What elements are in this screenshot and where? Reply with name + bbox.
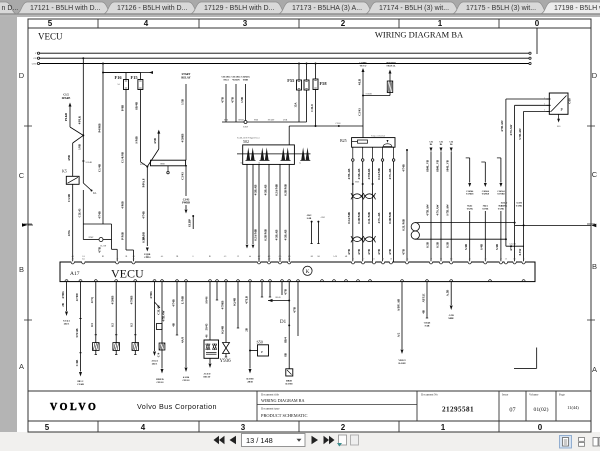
svg-text:B4: B4: [79, 279, 81, 281]
wire below F15: [139, 90, 141, 162]
svg-text:22: 22: [321, 279, 323, 281]
svg-text:PRODUCT SCHEMATIC: PRODUCT SCHEMATIC: [261, 413, 307, 418]
svg-text:2: 2: [341, 423, 346, 432]
svg-text:TANK: TANK: [467, 207, 473, 210]
svg-text:Document No: Document No: [421, 393, 438, 397]
svg-text:VOLVO: VOLVO: [50, 402, 98, 413]
svg-text:C3L8: C3L8: [310, 104, 314, 112]
svg-text:17175 - B5LH (3) wit...: 17175 - B5LH (3) wit...: [466, 5, 536, 12]
svg-text:0.5B: 0.5B: [446, 242, 450, 248]
svg-text:4/7B6: 4/7B6: [149, 291, 153, 299]
wire relay feed: [73, 135, 84, 143]
svg-text:4/3B.AB: 4/3B.AB: [253, 185, 257, 196]
svg-text:4A/8: 4A/8: [180, 337, 184, 344]
svg-text:4/74B: 4/74B: [171, 299, 175, 306]
svg-text:A3: A3: [224, 255, 226, 258]
svg-text:4/76.AW: 4/76.AW: [509, 125, 513, 136]
svg-text:B4: B4: [82, 259, 84, 261]
wire pin x289: [288, 282, 290, 369]
switch KL: [83, 183, 91, 191]
wire to top border: [536, 28, 538, 54]
svg-text:C7: C7: [369, 279, 371, 281]
svg-text:4/7B: 4/7B: [357, 249, 361, 255]
svg-text:TANK: TANK: [516, 204, 522, 207]
svg-text:SB/4B: SB/4B: [135, 102, 139, 110]
signal rail through 502: [237, 153, 311, 155]
power bus GND: [37, 62, 39, 64]
svg-text:B6: B6: [430, 144, 432, 146]
svg-text:4/76.AW: 4/76.AW: [435, 205, 439, 216]
svg-text:C3: C3: [269, 279, 271, 281]
svg-text:C36564: C36564: [497, 191, 505, 193]
svg-text:B25: B25: [340, 138, 347, 143]
svg-text:CHAS: CHAS: [157, 381, 165, 384]
svg-text:22: 22: [500, 259, 502, 261]
off-page wire: [524, 224, 591, 226]
node S148: [82, 134, 84, 136]
svg-text:A2: A2: [71, 258, 73, 261]
wire pin x402: [401, 282, 403, 349]
svg-text:C1: C1: [522, 279, 524, 281]
svg-text:4/7B.AB: 4/7B.AB: [347, 169, 351, 180]
svg-text:4/MB: 4/MB: [120, 201, 124, 208]
svg-text:2B: 2B: [61, 303, 65, 307]
svg-text:C3/4B: C3/4B: [77, 383, 84, 386]
svg-text:FRB: FRB: [224, 120, 229, 122]
svg-text:15: 15: [357, 279, 359, 281]
view mode single page selected: [560, 436, 572, 449]
svg-text:TANK8: TANK8: [497, 193, 505, 196]
svg-text:4/5B: 4/5B: [153, 138, 157, 144]
svg-text:WIRING DIAGRAM BA: WIRING DIAGRAM BA: [261, 398, 305, 403]
svg-text:C: C: [592, 170, 598, 179]
svg-text:AT/LE: AT/LE: [421, 294, 425, 303]
wire B25 pin x352.8: [352, 161, 354, 262]
tab 17126: [104, 2, 199, 14]
wire pin x427: [426, 282, 428, 318]
shield symbol outside: [301, 147, 305, 160]
svg-text:A.26: A.26: [333, 255, 337, 258]
next page button: [312, 436, 319, 444]
wire pin x217: [216, 282, 218, 300]
svg-text:F58: F58: [320, 81, 328, 86]
svg-text:4/7B: 4/7B: [377, 249, 381, 255]
svg-text:4/3B.AB: 4/3B.AB: [274, 230, 278, 241]
svg-text:0.5W: 0.5W: [518, 249, 522, 256]
svg-text:2B/A: 2B/A: [64, 323, 70, 326]
svg-text:C3L43: C3L43: [78, 208, 82, 217]
svg-text:0.5L/MB: 0.5L/MB: [367, 212, 371, 223]
wire pin x238: [237, 282, 239, 328]
wire pin x154: [154, 282, 156, 351]
svg-text:2B: 2B: [244, 328, 248, 332]
svg-text:A: A: [592, 365, 597, 374]
svg-text:31: 31: [373, 259, 375, 261]
svg-text:4/3B.AB: 4/3B.AB: [263, 185, 267, 196]
svg-text:F15: F15: [131, 75, 139, 80]
svg-text:4.3: 4.3: [268, 256, 271, 258]
svg-text:17173 - B5LHA (3) A...: 17173 - B5LHA (3) A...: [292, 5, 362, 12]
svg-text:4/PLK: 4/PLK: [78, 115, 82, 124]
svg-text:GB: GB: [33, 58, 37, 60]
tab bar: [0, 0, 600, 14]
row tick: [24, 125, 32, 127]
svg-text:4/5MB: 4/5MB: [180, 134, 184, 143]
wire F16 jog: [126, 249, 134, 251]
svg-text:6: 6: [193, 256, 194, 258]
svg-text:PWRB: PWRB: [182, 202, 190, 205]
wires 502 to VECU: [258, 164, 260, 262]
svg-text:28: 28: [390, 259, 392, 261]
lamp CL/D4: [99, 238, 103, 242]
svg-text:3: 3: [544, 110, 545, 112]
svg-text:A7: A7: [209, 278, 211, 281]
wire B25 pin x382.5: [382, 161, 384, 262]
wire bus drop x103: [102, 63, 104, 65]
svg-text:F55: F55: [287, 78, 295, 83]
svg-text:2: 2: [544, 104, 545, 106]
svg-text:S/4B: S/4B: [495, 244, 499, 250]
svg-text:S/4B: S/4B: [464, 244, 468, 250]
svg-text:C3/43: C3/43: [357, 108, 361, 116]
svg-text:A4: A4: [406, 258, 408, 261]
svg-text:36: 36: [333, 279, 335, 281]
svg-text:Temp_coolant/air: Temp_coolant/air: [371, 135, 385, 137]
svg-text:WARN: WARN: [232, 79, 240, 82]
svg-text:TANK: TANK: [498, 207, 504, 210]
power bus GB: [37, 57, 39, 59]
wire below F16: [125, 90, 127, 251]
svg-text:11(44): 11(44): [567, 405, 579, 410]
svg-text:A2: A2: [65, 278, 67, 281]
svg-text:THD: THD: [243, 79, 248, 82]
svg-text:A8: A8: [132, 255, 134, 258]
wire diagonal to S148: [70, 127, 83, 135]
solenoid Y936: [209, 282, 211, 340]
wire pin x298: [297, 282, 299, 336]
svg-text:C/4: C/4: [156, 352, 160, 357]
wire to lamp node: [82, 190, 84, 240]
svg-text:12: 12: [185, 279, 187, 281]
wire pin x177: [176, 282, 178, 335]
svg-text:TANK: TANK: [501, 204, 507, 207]
svg-text:C36: C36: [429, 142, 433, 144]
wire pin x226: [225, 282, 227, 343]
terminal strip: [151, 160, 186, 166]
svg-text:31: 31: [216, 279, 218, 281]
svg-text:4/7B: 4/7B: [367, 249, 371, 255]
snapshot icons: [339, 435, 347, 445]
wire pin x262: [261, 282, 263, 297]
svg-text:S76/4B: S76/4B: [75, 328, 79, 337]
svg-text:C1: C1: [134, 279, 136, 281]
svg-text:0.5B: 0.5B: [142, 237, 146, 243]
svg-text:FRB: FRB: [254, 120, 259, 122]
svg-text:4/74B: 4/74B: [97, 211, 101, 218]
power bus V: [37, 52, 39, 54]
tab 17198: [541, 2, 600, 14]
lamp box: [83, 223, 111, 225]
svg-text:0.5A/MB: 0.5A/MB: [347, 212, 351, 224]
svg-text:D: D: [592, 71, 598, 80]
svg-text:S50: S50: [257, 340, 263, 345]
svg-text:C3: C3: [440, 259, 442, 261]
svg-text:S/MB: S/MB: [135, 136, 139, 143]
twisted pair upper: [351, 193, 363, 199]
svg-text:41: 41: [288, 279, 290, 281]
svg-text:4/7B: 4/7B: [97, 247, 101, 253]
svg-text:C3L4B: C3L4B: [156, 305, 160, 314]
svg-text:C2: C2: [237, 256, 239, 258]
wire tank sender x469.7: [466, 157, 470, 159]
svg-text:4/7B.AW: 4/7B.AW: [425, 204, 429, 215]
svg-text:2: 2: [341, 19, 346, 28]
fold mark: [536, 348, 538, 369]
svg-text:C366: C366: [336, 123, 342, 125]
svg-text:CHAS: CHAS: [183, 379, 191, 382]
svg-text:17: 17: [116, 259, 118, 261]
B25 dome: [383, 144, 392, 147]
svg-text:0.5B: 0.5B: [425, 242, 429, 248]
sensor drain: [558, 114, 560, 119]
wire B25 pin x393.6: [393, 161, 395, 262]
svg-text:12: 12: [352, 259, 354, 261]
resistor speedo: [387, 81, 393, 93]
svg-text:23: 23: [133, 259, 135, 261]
fuse feed rail: [103, 72, 140, 74]
svg-text:3: 3: [241, 423, 246, 432]
wire pin x66: [66, 282, 68, 311]
svg-text:4/7B: 4/7B: [284, 289, 288, 295]
svg-text:C: C: [19, 171, 25, 180]
svg-text:0.5B/MB: 0.5B/MB: [263, 229, 267, 240]
connector DASH: [286, 369, 293, 376]
svg-text:HEAT: HEAT: [204, 376, 211, 379]
svg-text:4/9G: 4/9G: [67, 229, 71, 236]
svg-text:TANK8: TANK8: [482, 193, 490, 196]
svg-text:36: 36: [505, 259, 507, 261]
svg-text:4/7B: 4/7B: [292, 307, 296, 313]
VECU bottom pins: [65, 280, 68, 282]
svg-text:0.5B/MB: 0.5B/MB: [357, 212, 361, 223]
node S369: [244, 121, 247, 124]
svg-text:B3: B3: [513, 259, 515, 261]
node S164: [146, 166, 148, 168]
wire tank sender x500.9: [497, 157, 501, 159]
svg-text:5: 5: [45, 423, 50, 432]
svg-text:4B: 4B: [421, 310, 425, 314]
top ruler band: [28, 27, 591, 29]
svg-text:4/7MB: 4/7MB: [130, 296, 134, 305]
svg-text:L/MB: L/MB: [180, 296, 184, 304]
page field: [242, 434, 306, 447]
svg-text:CL/DI: CL/DI: [100, 245, 106, 248]
svg-text:A2: A2: [401, 278, 403, 281]
controller A17 VECU box: [60, 262, 535, 282]
svg-text:Document title: Document title: [261, 393, 280, 397]
svg-text:17198 - B5LH with: 17198 - B5LH with: [554, 5, 600, 12]
svg-text:P8: P8: [146, 256, 148, 258]
svg-text:0.5A/MB: 0.5A/MB: [377, 168, 381, 180]
svg-text:17121 - B5LH with D...: 17121 - B5LH with D...: [30, 5, 100, 12]
svg-text:LNB: LNB: [283, 120, 288, 122]
svg-text:1: 1: [544, 97, 545, 99]
svg-text:0.5L/MB: 0.5L/MB: [401, 219, 405, 230]
rail C366: [289, 125, 363, 127]
svg-text:P: P: [261, 350, 263, 354]
svg-text:A5: A5: [484, 258, 486, 261]
shield symbols: [246, 147, 250, 160]
signal rail: [222, 121, 307, 123]
svg-text:19: 19: [430, 259, 432, 261]
svg-text:17129 - B5LH with D...: 17129 - B5LH with D...: [204, 5, 274, 12]
svg-text:GND: GND: [32, 64, 37, 66]
svg-text:SPDB: SPDB: [238, 120, 244, 122]
svg-text:4/7LB: 4/7LB: [244, 296, 248, 304]
svg-text:4.2: 4.2: [258, 256, 261, 258]
svg-text:C/4B: C/4B: [75, 360, 79, 367]
svg-text:C36: C36: [449, 142, 453, 144]
svg-text:S/7B.AW: S/7B.AW: [446, 204, 450, 216]
tab 17175: [453, 2, 548, 14]
svg-text:17174 - B5LH (3) wit...: 17174 - B5LH (3) wit...: [379, 5, 449, 12]
twisted pair vertical: [411, 223, 419, 231]
svg-text:44: 44: [249, 256, 251, 258]
svg-text:B6: B6: [440, 144, 442, 146]
svg-text:5: 5: [48, 19, 53, 28]
stub AB2: [311, 221, 313, 223]
svg-text:P/PA.8: P/PA.8: [142, 178, 146, 187]
wire x83 lower: [82, 135, 84, 183]
svg-text:0: 0: [538, 423, 543, 432]
svg-text:A: A: [19, 362, 24, 371]
svg-text:4/9B: 4/9B: [67, 155, 71, 161]
wire arrow x158: [157, 130, 160, 134]
svg-text:21295581: 21295581: [442, 406, 474, 414]
svg-text:19: 19: [261, 279, 263, 281]
stub pins 502: [246, 164, 248, 244]
svg-text:Y936: Y936: [220, 359, 232, 364]
svg-text:RELAY: RELAY: [181, 76, 190, 79]
twisted pair lower: [351, 236, 363, 242]
wire pin x135.3: [134, 282, 136, 343]
svg-text:B8: B8: [382, 259, 384, 261]
svg-text:S84L.VB: S84L.VB: [446, 160, 450, 172]
svg-text:1/5B: 1/5B: [180, 99, 184, 105]
svg-text:B1: B1: [209, 256, 211, 258]
fuse F56: [304, 80, 309, 90]
title block top line: [28, 390, 591, 392]
sensor B25 box: [352, 138, 395, 148]
off-page entry arrow left: [22, 223, 28, 227]
svg-text:2B/A: 2B/A: [152, 362, 158, 365]
ruler divider: [97, 19, 99, 28]
svg-text:C36564: C36564: [466, 191, 474, 193]
svg-text:4/7DU: 4/7DU: [75, 292, 79, 301]
svg-text:4/LB: 4/LB: [357, 79, 361, 85]
svg-text:B6: B6: [450, 144, 452, 146]
svg-text:S/4B: S/4B: [307, 218, 312, 220]
wire pin x282: [281, 282, 283, 295]
svg-text:4/7B: 4/7B: [230, 97, 234, 103]
svg-text:4/7B: 4/7B: [347, 249, 351, 255]
svg-text:D: D: [19, 71, 25, 80]
svg-text:4/7B: 4/7B: [401, 249, 405, 255]
svg-text:HMB: HMB: [160, 164, 165, 166]
svg-text:SB/45: SB/45: [275, 297, 281, 299]
svg-text:4: 4: [144, 19, 149, 28]
svg-text:4B: 4B: [171, 323, 175, 327]
svg-text:23: 23: [115, 279, 117, 281]
svg-text:0.5A/MB: 0.5A/MB: [274, 184, 278, 196]
VECU top pins: [71, 261, 74, 263]
svg-text:15: 15: [523, 259, 525, 261]
svg-text:4/3B.AB: 4/3B.AB: [357, 169, 361, 180]
wire pin x451: [450, 282, 452, 305]
svg-text:1: 1: [441, 423, 446, 432]
svg-text:4/7B: 4/7B: [509, 245, 513, 251]
rail arrow: [103, 72, 152, 74]
svg-text:S/4B: S/4B: [480, 244, 484, 250]
svg-text:TANK8: TANK8: [466, 193, 474, 196]
wire pin x186: [185, 282, 187, 367]
svg-text:2a: 2a: [299, 162, 301, 164]
wire x147 down: [146, 167, 148, 246]
wire below relay: [72, 184, 74, 262]
svg-text:1/9B: 1/9B: [78, 144, 82, 150]
svg-text:GLBP: GLBP: [188, 219, 192, 227]
svg-text:A5: A5: [297, 278, 299, 281]
svg-text:1/5B: 1/5B: [240, 97, 244, 103]
svg-text:44: 44: [176, 279, 178, 281]
tab 17174: [366, 2, 461, 14]
svg-text:4/3B.AB: 4/3B.AB: [284, 230, 288, 241]
B25 pins: [352, 147, 354, 159]
svg-text:4/7MAB: 4/7MAB: [367, 169, 371, 180]
svg-text:TANK: TANK: [482, 207, 488, 210]
toolbar controls: [214, 436, 220, 444]
svg-text:B6: B6: [281, 279, 283, 281]
svg-text:Feed8.AB S/F Signl Power: Feed8.AB S/F Signl Power: [237, 136, 260, 139]
svg-text:59/45: 59/45: [204, 323, 208, 330]
svg-text:ACFB: ACFB: [516, 202, 522, 205]
svg-text:C3/43: C3/43: [180, 172, 184, 180]
svg-text:SB4L.VB: SB4L.VB: [435, 160, 439, 172]
bottom ruler band: [28, 420, 591, 422]
svg-text:HMP: HMP: [89, 237, 95, 239]
wire 502 to B25: [288, 126, 290, 145]
svg-text:DASH: DASH: [286, 383, 293, 386]
svg-text:17: 17: [450, 279, 452, 281]
wire pin x95.8: [95, 282, 97, 343]
svg-text:B: B: [592, 262, 597, 271]
wire B25 pin x362.7: [362, 161, 364, 262]
svg-text:C36: C36: [439, 142, 443, 144]
wire pin x250: [249, 282, 251, 369]
svg-text:Document type: Document type: [261, 407, 280, 411]
wire lamp to VECU: [111, 240, 113, 250]
svg-text:0: 0: [535, 19, 540, 28]
svg-text:B3: B3: [345, 279, 347, 281]
svg-text:AB/2: AB/2: [307, 214, 312, 217]
svg-text:S64/2: S64/2: [483, 206, 488, 208]
svg-text:Page: Page: [559, 392, 566, 396]
stub AB1: [317, 221, 319, 223]
symbol K: [303, 266, 312, 275]
svg-text:F16: F16: [115, 75, 123, 80]
svg-text:8B: 8B: [284, 353, 288, 357]
svg-text:Volume: Volume: [529, 392, 539, 396]
